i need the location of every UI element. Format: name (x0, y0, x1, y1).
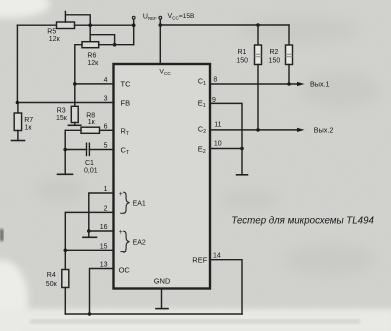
resistor R3 (74, 103, 76, 107)
svg-text:VCC=15В: VCC=15В (168, 13, 195, 20)
svg-text:GND: GND (154, 277, 171, 286)
wire GND stub (161, 289, 163, 309)
wire pin13 OC (90, 269, 114, 315)
svg-text:R7: R7 (24, 117, 33, 124)
node R5 right junction (88, 23, 92, 27)
arrow output 2 (297, 128, 305, 132)
wire R1 top lead (257, 25, 259, 45)
svg-text:R4: R4 (47, 272, 56, 279)
svg-text:R2: R2 (270, 49, 279, 56)
wire pin16 (89, 230, 114, 232)
svg-text:1к: 1к (88, 119, 96, 126)
svg-text:R1: R1 (238, 49, 247, 56)
wire R5 node down to R6 top (89, 25, 91, 42)
node TC junction (73, 82, 77, 86)
svg-text:1к: 1к (25, 124, 33, 131)
wire pin5 CT right segment (89, 149, 113, 151)
ground R7 (12, 140, 25, 142)
svg-text:2: 2 (104, 205, 108, 212)
wire R1 bottom lead to C2 line (257, 65, 259, 130)
EA1 minus mark (121, 212, 124, 214)
EA2 minus mark (121, 251, 124, 253)
svg-text:1: 1 (104, 186, 108, 193)
ground pin16 (83, 236, 97, 238)
wire top-left horizontal to R5 (17, 24, 56, 26)
terminal UREF (132, 16, 135, 19)
wire E1E2 ground stub (241, 149, 243, 175)
wire R6 left lead down through TC to R3 (75, 45, 82, 103)
node rail junction (88, 312, 92, 316)
svg-text:3: 3 (104, 96, 108, 103)
terminal VCC (159, 16, 162, 19)
R5 wiper (65, 12, 90, 26)
svg-text:50к: 50к (46, 281, 58, 288)
svg-text:13: 13 (100, 262, 108, 269)
node E1E2 junction (240, 147, 244, 151)
wire VCC vertical to IC (159, 19, 161, 64)
wire RT left segment down to CT (65, 130, 81, 149)
ground CT (58, 173, 73, 175)
ground E1E2 (237, 174, 248, 176)
R6 wiper (90, 35, 114, 45)
svg-text:R3: R3 (57, 107, 66, 114)
wire pin3 FB (17, 102, 113, 104)
ground GND (156, 308, 168, 310)
wire bottom rail (65, 313, 242, 315)
wire pin1 (89, 193, 114, 231)
resistor R7 (17, 103, 19, 114)
node UREF junction (132, 23, 136, 27)
wire left vertical (16, 25, 18, 102)
wire pin10 E2 (210, 148, 242, 150)
node pin16 junction (87, 229, 91, 233)
resistor R1 (255, 45, 262, 65)
capacitor C1 (87, 143, 90, 155)
svg-text:11: 11 (214, 122, 221, 129)
wire pin14 REF (210, 260, 242, 314)
svg-text:EA1: EA1 (133, 200, 146, 207)
node R6 wiper junction (113, 43, 117, 47)
svg-text:4: 4 (104, 77, 108, 84)
resistor R5 (57, 22, 75, 29)
arrow output 1 (297, 82, 305, 86)
svg-text:REF: REF (192, 255, 207, 264)
node R2 bottom junction (287, 82, 291, 86)
svg-text:Вых.2: Вых.2 (314, 125, 334, 134)
wire CT left segment (65, 149, 86, 151)
svg-text:12к: 12к (49, 36, 61, 43)
resistor R4 (64, 250, 66, 269)
node R1 bottom junction (256, 128, 260, 132)
svg-text:C1: C1 (85, 160, 94, 167)
svg-text:150: 150 (236, 57, 248, 64)
svg-text:TC: TC (121, 80, 132, 89)
svg-text:R5: R5 (47, 29, 56, 36)
svg-text:0,01: 0,01 (84, 167, 98, 174)
node R1 top junction (256, 23, 260, 27)
wire pin16 ground stub (88, 231, 90, 237)
node FB left junction (16, 101, 20, 105)
svg-text:15к: 15к (56, 115, 68, 122)
svg-text:FB: FB (121, 99, 131, 108)
resistor R8 (81, 127, 100, 133)
ground R3 bottom bar (68, 124, 80, 126)
svg-text:R6: R6 (87, 52, 96, 59)
svg-text:Тестер для микросхемы TL494: Тестер для микросхемы TL494 (231, 216, 374, 227)
svg-text:6: 6 (104, 123, 108, 130)
wire R2 top lead (288, 25, 290, 45)
svg-text:EA2: EA2 (133, 240, 146, 247)
node pin15 junction (64, 249, 68, 253)
wire pin9 E1 (210, 103, 242, 148)
svg-text:+: + (119, 191, 123, 198)
wire pin15 (65, 249, 113, 251)
svg-text:12к: 12к (87, 60, 99, 67)
svg-text:5: 5 (104, 143, 108, 150)
resistor R6 (82, 42, 99, 48)
op-amp brace EA2 (124, 231, 130, 252)
wire R2 bottom lead to C1 line (288, 65, 290, 85)
node VCC junction (159, 23, 163, 27)
wire pin2 (65, 212, 113, 250)
svg-text:Вых.1: Вых.1 (310, 80, 330, 89)
svg-text:150: 150 (269, 57, 281, 64)
wire VCC rail to R2 (160, 24, 289, 26)
resistor R2 (286, 45, 293, 65)
op-amp U1 (IC TL494 body) (114, 64, 211, 289)
wire CT ground stub (64, 150, 66, 175)
svg-text:+: + (119, 229, 123, 236)
svg-text:8: 8 (213, 77, 217, 84)
wire R5 right lead to UREF node (75, 24, 134, 26)
svg-text:9: 9 (212, 97, 216, 104)
svg-text:15: 15 (100, 243, 108, 250)
svg-text:14: 14 (213, 253, 221, 260)
svg-text:10: 10 (214, 140, 222, 147)
node CT junction (63, 148, 67, 152)
wire pin4 TC (75, 83, 114, 85)
svg-text:OC: OC (119, 266, 131, 275)
op-amp brace EA1 (124, 192, 130, 213)
wire pin11 C2 output (210, 129, 297, 131)
svg-text:16: 16 (100, 224, 108, 231)
wire R6 right lead to UREF vertical (99, 44, 134, 46)
wire pin6 RT right segment (100, 129, 114, 131)
wire UREF vertical (133, 19, 135, 45)
wire pin8 C1 output (210, 83, 297, 85)
